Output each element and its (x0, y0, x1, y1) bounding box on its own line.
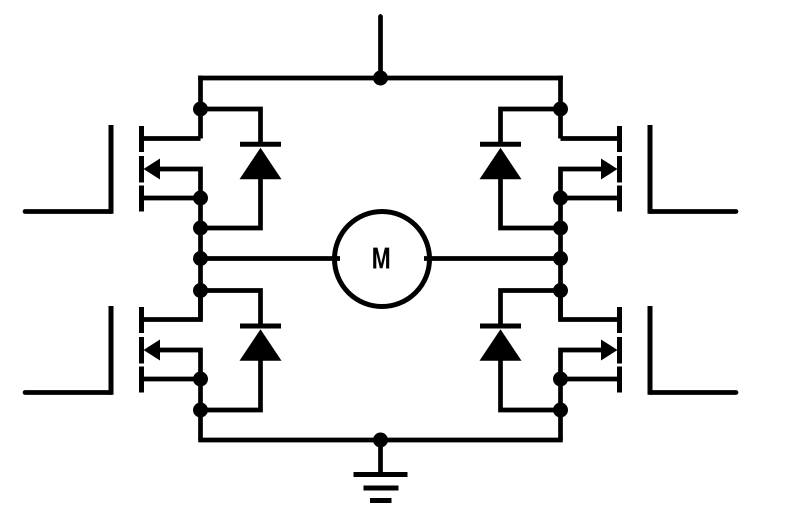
wire: Q3 gate lead (25, 390, 111, 395)
transistor Q3 (bottom-left N-MOSFET) (25, 291, 201, 395)
node: ground junction on bottom rail (373, 433, 388, 448)
wire: V+ supply stub (378, 17, 383, 79)
wire: Q2 gate lead (650, 209, 736, 214)
ground (354, 440, 408, 501)
triangle of D2 (480, 148, 522, 180)
transistor Q4 (bottom-right N-MOSFET) (561, 291, 737, 395)
node: supply junction on top rail (373, 71, 388, 86)
wire: Q3 source lead (142, 377, 201, 382)
node: Q1 drain / D1 cathode junction (193, 102, 208, 117)
wire: right rail upper segment (top rail corner to Q2 drain) (558, 76, 563, 139)
wire: Q4 source lead (561, 377, 620, 382)
node: Q2 drain / D2 cathode junction (553, 102, 568, 117)
wire: Q2 drain lead (561, 136, 620, 141)
ground bar 2 (364, 486, 399, 491)
gate plate of Q2 (648, 125, 653, 214)
wire: ground stub (378, 440, 383, 475)
wire: bottom rail (198, 438, 563, 443)
triangle of D3 (240, 329, 282, 361)
channel bar segments of Q1 (139, 126, 144, 152)
wire: D2 cathode branch (501, 109, 561, 146)
motor M1 circle (335, 212, 430, 307)
wire: D4 cathode branch (501, 291, 561, 328)
cathode bar of D2 (480, 142, 521, 147)
wire: Q1 body lead (157, 169, 201, 198)
wire: left rail lower segment (Q3 source to bottom rail corner) (198, 379, 203, 440)
diode D4 (body diode of Q4) (480, 291, 561, 411)
wire: Q3 body lead (157, 350, 201, 379)
node: right motor terminal junction (553, 251, 568, 266)
diode D2 (body diode of Q2) (480, 109, 561, 228)
wire: D3 cathode branch (201, 291, 261, 328)
wire: motor right lead (424, 256, 561, 261)
wire: D2 anode branch (501, 176, 561, 228)
cathode bar of D1 (240, 142, 281, 147)
node: D3 anode junction (193, 403, 208, 418)
cathode bar of D3 (240, 324, 281, 329)
node: Q4 source junction (553, 372, 568, 387)
body arrow of Q2 (601, 159, 618, 180)
wire: Q3 drain lead (142, 291, 201, 320)
gate plate of Q3 (109, 306, 114, 395)
node: D2 anode junction (553, 221, 568, 236)
ground bar 1 (354, 472, 408, 477)
triangle of D4 (480, 329, 522, 361)
gate plate of Q1 (109, 125, 114, 214)
body arrow of Q1 (144, 159, 161, 180)
ground bar 3 (370, 498, 392, 503)
node: Q3 source junction (193, 372, 208, 387)
transistor Q2 (top-right N-MOSFET) (561, 125, 737, 214)
wire: motor left lead (201, 256, 341, 261)
wire: Q2 body lead (561, 169, 605, 198)
node: left motor terminal junction (193, 251, 208, 266)
cathode bar of D4 (480, 324, 521, 329)
diode D1 (body diode of Q1) (201, 109, 282, 228)
wire: Q1 source lead (142, 196, 201, 201)
body arrow of Q3 (144, 340, 161, 361)
body arrow of Q4 (601, 340, 618, 361)
wire: Q1 gate lead (25, 209, 111, 214)
wire: D1 anode branch (201, 176, 261, 228)
wire: left rail upper segment (top rail corner to Q1 drain) (198, 76, 203, 139)
wire: Q4 drain lead (561, 291, 620, 320)
node: D4 anode junction (553, 403, 568, 418)
channel bar segments of Q2 (617, 126, 622, 152)
channel bar segments of Q3 (139, 307, 144, 333)
wire: right rail lower segment (Q4 source to bottom rail corner) (558, 379, 563, 440)
wire: left rail middle segment (Q1 source to Q3 drain) (198, 198, 203, 320)
node: D1 anode junction (193, 221, 208, 236)
wire: top rail (198, 76, 563, 81)
node: Q4 drain / D4 cathode junction (553, 283, 568, 298)
node: Q1 source junction (193, 191, 208, 206)
node: Q3 drain / D3 cathode junction (193, 283, 208, 298)
wire: Q1 drain lead (142, 136, 201, 141)
gate plate of Q4 (648, 306, 653, 395)
wire: Q4 body lead (561, 350, 605, 379)
wire: Q2 source lead (561, 196, 620, 201)
node: Q2 source junction (553, 191, 568, 206)
wire: D1 cathode branch (201, 109, 261, 146)
wire: Q4 gate lead (650, 390, 736, 395)
transistor Q1 (top-left N-MOSFET) (25, 125, 201, 214)
motor M1 label "M" (373, 248, 389, 269)
wire: right rail middle segment (Q2 source to Q4 drain) (558, 198, 563, 320)
diode D3 (body diode of Q3) (201, 291, 282, 411)
triangle of D1 (240, 148, 282, 180)
wire: D4 anode branch (501, 358, 561, 411)
wire: D3 anode branch (201, 358, 261, 411)
channel bar segments of Q4 (617, 307, 622, 333)
